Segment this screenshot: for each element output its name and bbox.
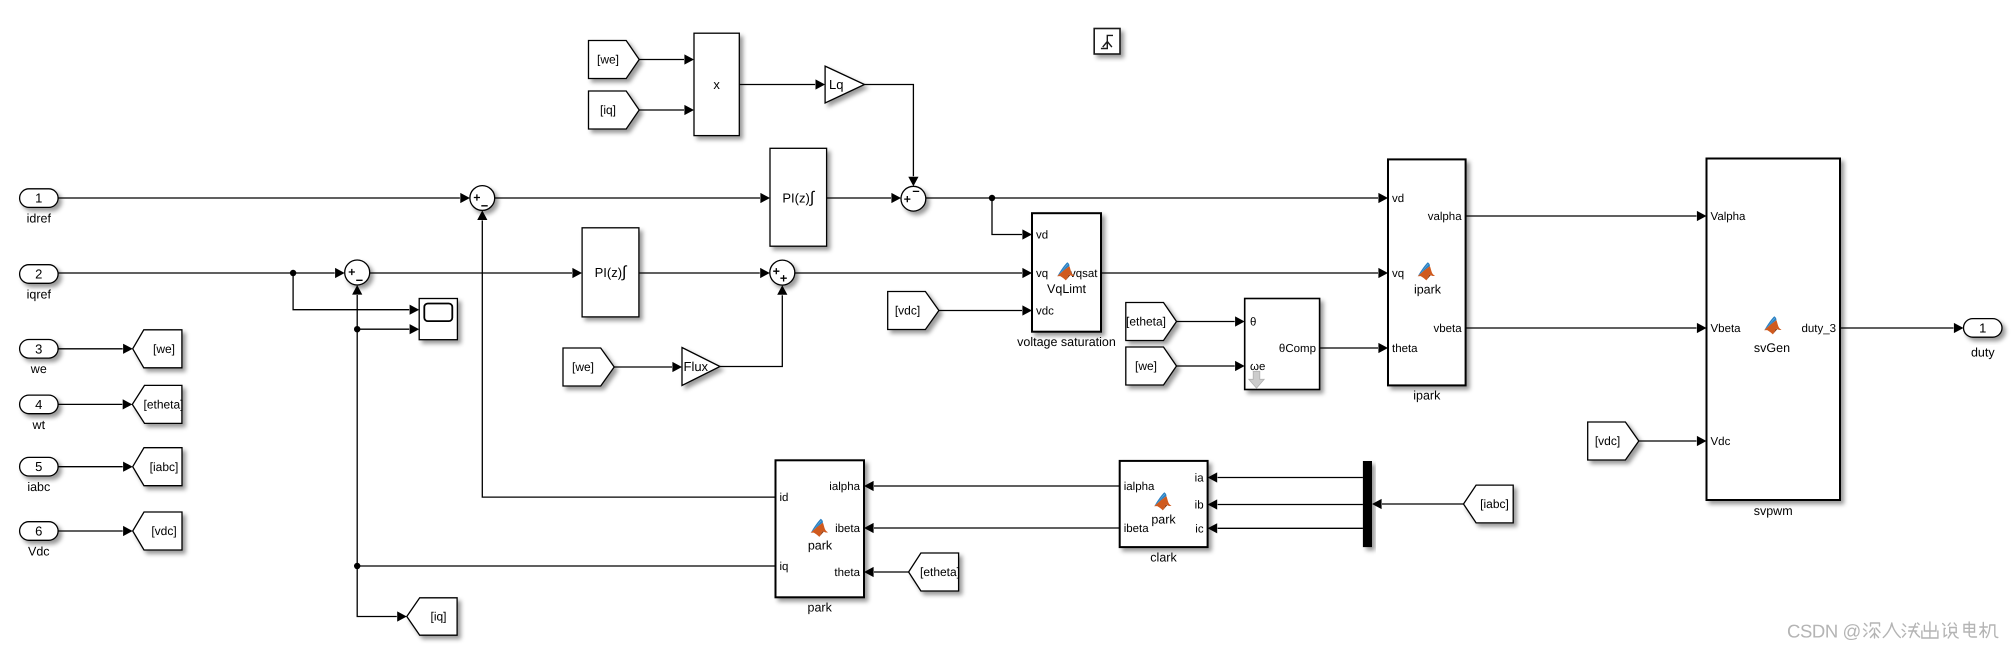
wire [etheta] to thetacomp — [1177, 316, 1245, 326]
svg-text:vq: vq — [1392, 268, 1404, 280]
svg-text:park: park — [808, 601, 833, 615]
junction node iq scope branch — [354, 326, 360, 332]
svg-text:Lq: Lq — [829, 77, 843, 92]
svg-text:x: x — [713, 77, 720, 92]
svg-text:iqref: iqref — [27, 287, 52, 301]
sum junction sum4 — [901, 186, 926, 211]
wire VqLimt vqsat to ipark vq — [1101, 268, 1388, 278]
svg-text:ib: ib — [1195, 500, 1204, 512]
goto tag [iabc] left column — [133, 448, 182, 486]
svg-text:[we]: [we] — [1135, 359, 1157, 373]
wire port4 to goto etheta — [58, 399, 132, 409]
goto tag [vdc] left column — [133, 512, 182, 550]
svg-text:[iabc]: [iabc] — [150, 460, 179, 474]
from tag [etheta] thetacomp — [1126, 303, 1177, 341]
input port 4 wt — [20, 395, 59, 432]
wire sum1 to PI d — [495, 193, 770, 203]
input port 5 iabc — [20, 457, 59, 494]
svg-text:theta: theta — [1392, 343, 1418, 355]
svg-text:5: 5 — [35, 459, 42, 474]
svg-text:3: 3 — [35, 341, 42, 356]
svg-text:theta: theta — [834, 567, 860, 579]
svg-text:Flux: Flux — [684, 359, 709, 374]
demux iabc — [1363, 461, 1372, 547]
output port 1 duty — [1964, 319, 2003, 360]
PI controller q-axis — [582, 228, 639, 317]
gain Flux — [682, 348, 720, 386]
svg-text:iq: iq — [780, 561, 789, 573]
input port 1 idref — [20, 189, 59, 226]
sum junction sum1 — [470, 186, 495, 211]
svg-text:wt: wt — [32, 418, 46, 432]
wire iq branch to goto iq — [357, 566, 407, 622]
wire ipark vbeta to svpwm — [1466, 323, 1707, 333]
svg-text:ipark: ipark — [1414, 283, 1442, 297]
wire iq branch to scope in2 — [357, 324, 419, 334]
svg-text:we: we — [30, 362, 47, 376]
MATLAB function block svGen svpwm — [1707, 159, 1841, 519]
svg-text:park: park — [1151, 513, 1176, 527]
svg-text:duty: duty — [1971, 345, 1995, 359]
svg-text:[iq]: [iq] — [600, 103, 616, 117]
wire port3 to goto we — [58, 344, 133, 354]
from tag [etheta] park flipped — [909, 553, 960, 591]
input port 6 Vdc — [20, 522, 59, 559]
svg-text:ibeta: ibeta — [1124, 523, 1150, 535]
wire demux ia to clark — [1208, 472, 1363, 482]
svg-text:ialpha: ialpha — [1124, 481, 1155, 493]
goto tag [etheta] left column — [132, 385, 183, 423]
MATLAB function block VqLimt voltage saturation — [1017, 213, 1116, 349]
svg-text:vdc: vdc — [1036, 306, 1054, 318]
svg-text:PI(z)∫: PI(z)∫ — [595, 264, 628, 281]
input port 3 we — [20, 340, 59, 377]
wire port5 to goto iabc — [58, 462, 133, 472]
svg-text:vd: vd — [1392, 193, 1404, 205]
svg-text:VqLimt: VqLimt — [1047, 282, 1086, 296]
wire clark ibeta to park ibeta — [864, 523, 1120, 533]
svg-text:ibeta: ibeta — [835, 523, 861, 535]
wire vd branch to VqLimt — [992, 198, 1032, 240]
wire park id feedback to sum1 — [477, 210, 775, 497]
svg-text:[we]: [we] — [597, 53, 619, 67]
wire Lq to sum4 — [865, 85, 919, 187]
svg-text:[vdc]: [vdc] — [1595, 434, 1620, 448]
svg-text:Vdc: Vdc — [1711, 436, 1731, 448]
trigger block top — [1094, 29, 1120, 55]
wire from [iq] to product — [639, 105, 694, 115]
svg-text:6: 6 — [35, 524, 42, 539]
watermark chinese characters — [1864, 622, 1998, 638]
svg-text:ipark: ipark — [1413, 389, 1441, 403]
svg-text:Vdc: Vdc — [28, 544, 50, 558]
from tag [we] flux row — [563, 348, 614, 386]
svg-text:[etheta]: [etheta] — [143, 398, 183, 412]
gain Lq — [825, 66, 864, 103]
goto tag [we] left column — [133, 330, 182, 368]
subsystem thetaComp — [1245, 299, 1320, 390]
svg-text:[iabc]: [iabc] — [1480, 497, 1509, 511]
svg-text:PI(z)∫: PI(z)∫ — [782, 189, 815, 206]
wire svpwm duty_3 to output port — [1840, 323, 1964, 333]
svg-text:clark: clark — [1150, 551, 1177, 565]
svg-text:id: id — [780, 492, 789, 504]
wire [iabc] to demux — [1372, 499, 1464, 509]
svg-text:iabc: iabc — [27, 480, 50, 494]
junction node iq feedback — [354, 563, 360, 569]
wire [vdc] to svpwm Vdc — [1639, 436, 1707, 446]
from tag [iabc] flipped — [1464, 485, 1514, 523]
wire sum4 to ipark vd — [926, 193, 1388, 203]
junction node iqref branch — [290, 270, 296, 276]
wire thetacomp to ipark theta — [1320, 343, 1388, 353]
wire park iq feedback to sum2 — [352, 285, 775, 566]
sum junction sum3 — [770, 260, 795, 285]
wire sum2 to PI q — [370, 268, 582, 278]
svg-text:[etheta]: [etheta] — [920, 565, 960, 579]
sum junction sum2 — [345, 260, 370, 285]
junction node vd branch — [989, 195, 995, 201]
wire ipark valpha to svpwm — [1466, 211, 1707, 221]
wire PI d to sum4 — [827, 193, 901, 203]
svg-text:ia: ia — [1195, 473, 1205, 485]
svg-text:vq: vq — [1036, 268, 1048, 280]
svg-text:vqsat: vqsat — [1070, 268, 1098, 280]
svg-text:Valpha: Valpha — [1711, 211, 1747, 223]
wire demux ic to clark — [1208, 523, 1363, 533]
svg-text:[vdc]: [vdc] — [895, 304, 920, 318]
svg-text:θ: θ — [1250, 317, 1256, 329]
from tag [vdc] svpwm — [1588, 422, 1639, 460]
goto tag [iq] bottom — [407, 598, 457, 635]
svg-text:duty_3: duty_3 — [1801, 323, 1836, 335]
wire demux ib to clark — [1208, 499, 1363, 509]
wire from [we] to product — [639, 54, 694, 64]
scope block — [419, 299, 457, 340]
wire sum3 to VqLimt vq — [795, 268, 1032, 278]
wire [we] to thetacomp — [1177, 361, 1245, 371]
input port 2 iqref — [20, 265, 59, 302]
svg-text:4: 4 — [35, 397, 42, 412]
from tag [we] top — [589, 41, 640, 79]
from tag [we] thetacomp — [1126, 347, 1177, 385]
svg-text:valpha: valpha — [1428, 211, 1462, 223]
svg-text:2: 2 — [35, 267, 42, 282]
svg-text:[vdc]: [vdc] — [151, 524, 176, 538]
svg-text:svGen: svGen — [1754, 341, 1790, 355]
wire [vdc] to VqLimt vdc — [939, 305, 1032, 315]
wire [etheta] to park theta — [864, 567, 909, 577]
svg-text:1: 1 — [1979, 320, 1986, 335]
wire Flux to sum3 — [720, 285, 787, 366]
watermark CSDN — [1787, 621, 1861, 642]
from tag [iq] top — [589, 91, 640, 129]
product block x — [694, 33, 739, 135]
MATLAB function block park — [776, 460, 865, 614]
svg-text:θComp: θComp — [1279, 343, 1316, 355]
svg-text:voltage saturation: voltage saturation — [1017, 335, 1116, 349]
svg-text:park: park — [808, 539, 833, 553]
wire port1 to sum1 — [58, 193, 470, 203]
svg-text:Vbeta: Vbeta — [1711, 323, 1742, 335]
svg-text:[we]: [we] — [572, 360, 594, 374]
svg-text:ic: ic — [1195, 523, 1204, 535]
svg-text:[etheta]: [etheta] — [1126, 315, 1166, 329]
wire iqref branch to scope in1 — [293, 273, 419, 315]
svg-text:CSDN @: CSDN @ — [1787, 621, 1861, 642]
wire product to gain Lq — [739, 79, 825, 89]
svg-text:[iq]: [iq] — [430, 610, 446, 624]
svg-text:1: 1 — [35, 191, 42, 206]
wire port6 to goto vdc — [58, 526, 133, 536]
wire clark ialpha to park ialpha — [864, 481, 1120, 491]
MATLAB function block clark — [1120, 461, 1208, 565]
svg-text:vbeta: vbeta — [1433, 323, 1462, 335]
wire port2 to sum2 — [58, 268, 345, 278]
wire [we] to gain Flux — [614, 362, 682, 372]
PI controller d-axis — [770, 148, 827, 246]
svg-text:[we]: [we] — [153, 342, 175, 356]
svg-text:vd: vd — [1036, 230, 1048, 242]
svg-text:idref: idref — [27, 212, 52, 226]
from tag [vdc] — [888, 292, 939, 330]
wire PI q to sum3 — [639, 268, 770, 278]
MATLAB function block ipark — [1388, 159, 1466, 402]
svg-text:ialpha: ialpha — [829, 481, 860, 493]
svg-text:svpwm: svpwm — [1754, 504, 1793, 518]
